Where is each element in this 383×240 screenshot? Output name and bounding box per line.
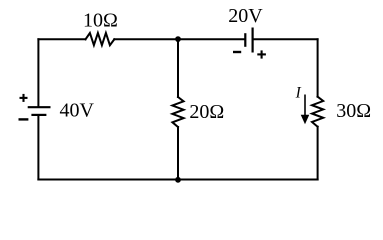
svg-text:30Ω: 30Ω	[336, 100, 371, 122]
svg-text:40V: 40V	[60, 99, 95, 121]
svg-text:I: I	[295, 85, 302, 102]
svg-text:20V: 20V	[228, 5, 263, 27]
svg-text:20Ω: 20Ω	[189, 101, 224, 123]
svg-text:10Ω: 10Ω	[83, 10, 118, 32]
